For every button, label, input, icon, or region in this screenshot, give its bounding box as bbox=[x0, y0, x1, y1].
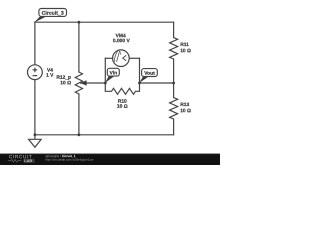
label R10 value bbox=[117, 99, 128, 110]
wire left rail upper bbox=[34, 22, 36, 65]
potentiometer R12_p bbox=[75, 72, 82, 94]
wire top horizontal bbox=[35, 21, 174, 23]
wire wiper to Vin node bbox=[81, 82, 106, 84]
junction bottom wire / pot bbox=[78, 133, 81, 136]
junction Vout node bbox=[138, 82, 141, 85]
footer watermark bar bbox=[0, 154, 220, 166]
junction right rail / Vout wire bbox=[172, 82, 175, 85]
voltage source V4 bbox=[28, 65, 43, 80]
resistor R10 bbox=[105, 83, 139, 94]
wire pot bottom lead bbox=[78, 94, 80, 135]
svg-text:10 Ω: 10 Ω bbox=[60, 80, 71, 86]
svg-text:0.000 V: 0.000 V bbox=[113, 38, 131, 44]
svg-text:Vin: Vin bbox=[110, 70, 118, 76]
wire right rail between R11 and R13 bbox=[173, 59, 175, 98]
wire voltmeter right lead horizontal bbox=[129, 57, 139, 59]
wire Vout node to right rail bbox=[140, 82, 174, 84]
junction bottom wire / ground bbox=[34, 133, 37, 136]
svg-text:10 Ω: 10 Ω bbox=[180, 48, 191, 54]
label R11 value bbox=[180, 42, 191, 54]
svg-text:1 V: 1 V bbox=[46, 73, 54, 79]
svg-text:Circuit_3: Circuit_3 bbox=[42, 11, 64, 17]
wire bottom horizontal bbox=[35, 134, 174, 136]
wire pot top lead bbox=[78, 22, 80, 72]
svg-text:LAB: LAB bbox=[24, 159, 32, 163]
voltmeter VM4 bbox=[113, 50, 130, 67]
wire Vout vertical (voltmeter right lead down) bbox=[139, 58, 141, 83]
wire right rail R11 top lead bbox=[173, 22, 175, 37]
junction Vin node bbox=[104, 82, 107, 85]
pot wiper arrow bbox=[80, 80, 86, 86]
node label Vout callout bbox=[139, 69, 157, 83]
svg-text:R11: R11 bbox=[180, 42, 189, 48]
label R13 value bbox=[180, 102, 191, 114]
label V4 value bbox=[46, 68, 54, 79]
svg-text:Vout: Vout bbox=[144, 71, 155, 77]
svg-text:http://circuitlab.com/c55k4g1p: http://circuitlab.com/c55k4g1pn1zw bbox=[45, 158, 94, 162]
resistor R11 bbox=[170, 38, 178, 60]
label R12_p value bbox=[56, 75, 71, 87]
resistor R13 bbox=[170, 98, 178, 120]
node label Vin callout bbox=[105, 68, 120, 83]
junction top wire / pot bbox=[78, 21, 81, 24]
svg-text:R12_p: R12_p bbox=[56, 75, 71, 81]
svg-text:10 Ω: 10 Ω bbox=[117, 104, 128, 110]
node label Circuit_3 callout bbox=[34, 9, 67, 23]
wire left rail lower bbox=[34, 80, 36, 135]
svg-text:10 Ω: 10 Ω bbox=[180, 108, 191, 114]
wire Vin vertical (voltmeter left lead down) bbox=[104, 58, 106, 83]
wire voltmeter left lead horizontal bbox=[105, 57, 112, 59]
svg-text:R13: R13 bbox=[180, 102, 189, 108]
label VM4 value bbox=[113, 33, 131, 44]
wire right rail R13 bottom lead bbox=[173, 119, 175, 135]
ground bbox=[29, 135, 42, 148]
